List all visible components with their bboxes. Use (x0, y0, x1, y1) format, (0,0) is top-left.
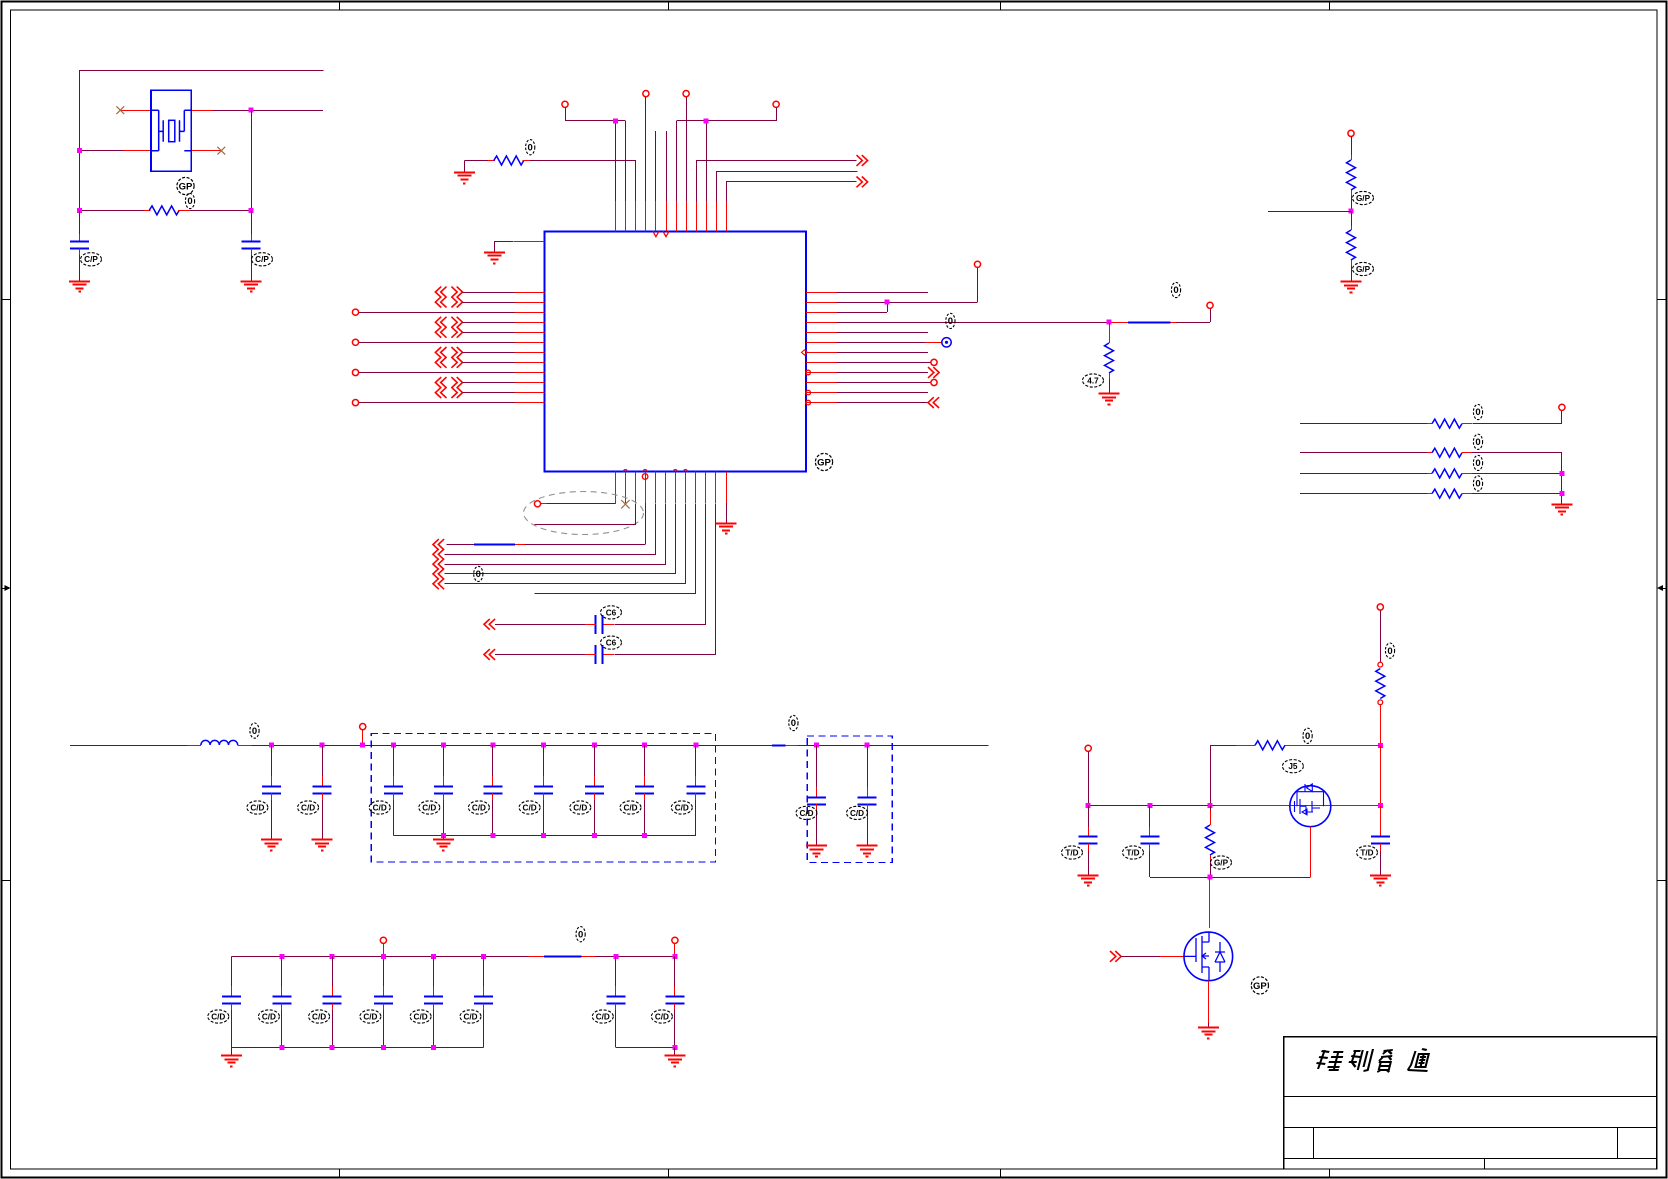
IC top pin clock marks (653, 231, 669, 236)
resistor R5 divider lower (1351, 211, 1353, 226)
wire left long row 3 (359, 372, 515, 374)
svg-text:G/P: G/P (1214, 858, 1229, 867)
wire divider tap out (1268, 211, 1351, 213)
wire power rail (1088, 805, 1215, 807)
crystal Y1 symbol (151, 110, 191, 151)
ground crystal C1 (69, 281, 90, 283)
wire left short rows group 2 (463, 322, 515, 324)
capacitor C17 bank3 (279, 954, 284, 959)
ground C15 (857, 845, 878, 847)
label value crystal R1 (185, 193, 194, 208)
svg-text:C/D: C/D (211, 1012, 225, 1021)
capacitor C6 rail (320, 743, 325, 748)
wire crystal right branch down (251, 110, 253, 210)
wire bottom p8 row (445, 504, 686, 584)
label L1 (250, 723, 259, 738)
node VT2 terminal (643, 91, 649, 97)
label R8 (1473, 455, 1482, 470)
label C7 (369, 801, 390, 814)
wire VIN to rail (1380, 745, 1382, 805)
border zone tick right lower (1657, 880, 1666, 882)
ground C24 (1078, 875, 1099, 877)
svg-text:0: 0 (1475, 407, 1480, 418)
svg-text:C/D: C/D (422, 803, 436, 812)
capacitor C16 bank3 (231, 956, 233, 986)
chevron row p6 (433, 559, 439, 570)
resistor R9 row4 (1300, 493, 1427, 495)
ground R3 (1099, 393, 1120, 395)
resistor R7 row2 (1300, 452, 1427, 454)
junction R10 bottom (1378, 743, 1383, 748)
svg-text:GP: GP (817, 457, 831, 468)
wire right row6 to testpoint (837, 342, 925, 344)
capacitor C10 box1 (541, 743, 546, 748)
label GP Q2 (1251, 977, 1268, 994)
svg-text:T/D: T/D (1126, 848, 1139, 857)
label R9 (1473, 476, 1482, 491)
label net row4 (1171, 282, 1180, 297)
svg-text:0: 0 (578, 929, 583, 940)
svg-text:C/D: C/D (675, 803, 689, 812)
company logo text (Chinese strokes) (1314, 1049, 1433, 1072)
label C10 (519, 801, 540, 814)
label R2 value (526, 140, 535, 155)
junction mid rail terminal (360, 743, 365, 748)
no-connect X crystal pin4 (217, 147, 225, 155)
IC left aux pin to ground (514, 241, 544, 243)
title block divider row3 (1284, 1158, 1657, 1160)
junction rail r12 (1208, 803, 1213, 808)
wire net VT4 (677, 108, 777, 121)
wire crystal pin3 out right (191, 110, 213, 112)
wire mid rail main (252, 745, 989, 747)
svg-text:C/D: C/D (301, 803, 315, 812)
chevron out row9 (928, 367, 934, 378)
svg-text:J5: J5 (1288, 762, 1298, 771)
svg-text:0: 0 (1475, 479, 1480, 490)
capacitor C3 series (595, 615, 597, 634)
svg-text:C/D: C/D (850, 809, 864, 818)
wire box1 bottom rail (394, 835, 696, 837)
junction crystal left (77, 148, 82, 153)
IC right pin stubs (red) (806, 293, 837, 403)
capacitor C11 box1 (592, 743, 597, 748)
capacitor C21 bank3 (481, 954, 486, 959)
wire pin 696 out right (697, 161, 857, 202)
junction net VT4 (704, 118, 709, 123)
title block outline (1284, 1037, 1657, 1169)
border zone tick left lower (2, 880, 11, 882)
chevron out B (857, 177, 863, 188)
ground IC bottom (716, 523, 737, 525)
label C16 (208, 1010, 229, 1023)
ferrite blue segment mid rail (772, 745, 785, 747)
node terminal bottom p1 (534, 501, 540, 507)
junction R1 left (77, 208, 82, 213)
ground C5 (261, 839, 282, 841)
resistor R2 pulldown top (464, 160, 495, 162)
wire left long row 2 (359, 342, 515, 344)
ground IC left aux (484, 252, 505, 254)
bus entry chevrons group 2 (435, 317, 441, 328)
node terminal divider top (1348, 130, 1354, 136)
label C26 (1357, 846, 1378, 859)
wire Q1 source down (1310, 827, 1312, 877)
svg-text:0: 0 (1475, 437, 1480, 448)
svg-text:C/P: C/P (255, 255, 269, 264)
capacitor C14 box2 (814, 743, 819, 748)
IC right pin bubbles (806, 370, 811, 375)
junction rail c2 (1147, 803, 1152, 808)
label R12 (1211, 856, 1232, 869)
title block cell line v2 (1617, 1127, 1619, 1158)
label C8 (419, 801, 440, 814)
ferrite blue segment row4 (1128, 322, 1171, 324)
inductor L1 (187, 745, 201, 747)
wire bottom p12 to ground (726, 503, 728, 523)
transistor Q1 (P-MOSFET) (1290, 786, 1331, 827)
junction right row2 (885, 300, 890, 305)
capacitor C7 box1 (391, 743, 396, 748)
node left terminal 4 (352, 400, 358, 406)
crystal Y1 body (151, 90, 191, 171)
junction row4 (1107, 320, 1112, 325)
node VT1 terminal (562, 101, 568, 107)
ground C14 (806, 845, 827, 847)
svg-text:C/D: C/D (596, 1012, 610, 1021)
svg-text:0: 0 (476, 569, 481, 580)
svg-text:C/D: C/D (463, 1012, 477, 1021)
svg-text:0: 0 (948, 316, 953, 327)
svg-text:C/D: C/D (262, 1012, 276, 1021)
svg-text:0: 0 (1305, 731, 1310, 742)
wire left short rows group 1 (463, 292, 515, 294)
wire right row7 stub (837, 352, 928, 354)
junctions bank3 bottom rail (279, 1045, 284, 1050)
ground bank3 right (674, 1048, 676, 1056)
resistor R6 row1 (1300, 423, 1427, 425)
junction 4R bus row3 (1559, 471, 1564, 476)
chevron row C3 (484, 619, 490, 630)
label C21 (460, 1010, 481, 1023)
label C6 (298, 801, 319, 814)
capacitor C2 crystal right (251, 210, 253, 234)
label bus row p7 (474, 566, 483, 581)
junction bank3 terminal (381, 954, 386, 959)
wire Q2 gate (1122, 956, 1161, 958)
border zone tick top 3 (1000, 2, 1002, 11)
chevron in row12 (928, 397, 934, 408)
title block cell line v1 (1313, 1127, 1315, 1158)
wire stub pin5 (655, 131, 657, 201)
chevron row p4 (433, 539, 439, 550)
label C3 (601, 606, 622, 619)
wire bottom p3 stub (535, 504, 636, 525)
node left terminal 3 (352, 369, 358, 375)
capacitor C8 box1 (441, 743, 446, 748)
wire 4R ground bus (1561, 453, 1563, 504)
IC bottom pin stubs (red) (616, 472, 727, 504)
wire Q2 drain (1209, 877, 1211, 928)
label C9 (468, 801, 489, 814)
label C24 (1062, 846, 1083, 859)
wire right row10 to terminal (837, 382, 931, 384)
capacitor C23 bank3 right (672, 954, 677, 959)
wire bottom p7 row (445, 504, 676, 574)
IC top pin stubs (red) (616, 201, 727, 231)
title block divider row1 (1284, 1096, 1657, 1098)
label R11 (1303, 728, 1312, 743)
wire pin 726 out right (727, 182, 857, 202)
junctions box1 bottom rail (441, 833, 446, 838)
wire right row5 stub (837, 332, 928, 334)
node terminal rail left (1085, 745, 1091, 751)
label net row4 inline (946, 313, 955, 328)
capacitor C4 series (595, 645, 597, 664)
ground R2 (464, 161, 466, 173)
border zone tick bottom 1 (339, 1169, 341, 1178)
ground box1 (443, 835, 445, 839)
capacitor C19 bank3 (381, 954, 386, 959)
wire bottom p5 row (445, 504, 656, 555)
label C17 (258, 1010, 279, 1023)
border zone tick top 2 (668, 2, 670, 11)
capacitor C24 rail left (1088, 806, 1090, 827)
wire net VT2 (645, 97, 647, 201)
node terminal row4 (1207, 302, 1213, 308)
label bank3 ferrite (576, 927, 585, 942)
chevron row p7 (433, 569, 439, 580)
label C25 (1123, 846, 1144, 859)
wire net VT1 (566, 108, 626, 121)
no-connect X crystal pin1 (116, 106, 124, 114)
capacitor C15 box2 (865, 743, 870, 748)
label R5 (1353, 262, 1374, 275)
capacitor C18 bank3 (330, 954, 335, 959)
junction bank3 right (672, 1045, 677, 1050)
label C5 (247, 801, 268, 814)
label C13 (671, 801, 692, 814)
svg-text:C/D: C/D (655, 1012, 669, 1021)
label R10 (1385, 643, 1394, 658)
svg-text:GP: GP (179, 181, 193, 192)
border zone tick bottom 4 (1329, 1169, 1331, 1178)
svg-text:C/D: C/D (523, 803, 537, 812)
label C14 (796, 806, 817, 819)
label C22 (592, 1010, 613, 1023)
chevron row p8 (433, 578, 439, 589)
node VT3 terminal (683, 91, 689, 97)
node terminal VIN (1377, 604, 1383, 610)
border zone tick left upper (2, 299, 11, 301)
IC right pin diamond row7 (802, 350, 808, 355)
wire left long row 4 (359, 402, 515, 404)
resistor R1 crystal feedback (80, 210, 144, 212)
ground C6 (312, 839, 333, 841)
wire mid rail left (70, 745, 187, 747)
wire right row11 stub (837, 392, 928, 394)
capacitor C5 rail (269, 743, 274, 748)
label C1 (81, 253, 102, 266)
capacitor C26 rail right (1380, 806, 1382, 827)
svg-text:C/D: C/D (312, 1012, 326, 1021)
resistor R4 divider upper (1351, 137, 1353, 155)
border zone tick top 1 (339, 2, 341, 11)
node terminal row8 (931, 359, 937, 365)
svg-text:C6: C6 (606, 639, 617, 648)
wire right row1 stub (837, 292, 928, 294)
svg-text:C/D: C/D (573, 803, 587, 812)
IC bottom pin circle p4 (642, 474, 648, 480)
svg-text:C/P: C/P (84, 255, 98, 264)
border zone tick bottom 2 (668, 1169, 670, 1178)
wire right row4 long net (837, 322, 1110, 324)
no-connect X bottom p2 (621, 500, 629, 508)
svg-text:C/D: C/D (799, 809, 813, 818)
wire bottom p4 row (to bus) (645, 503, 647, 545)
junction crystal right (249, 108, 254, 113)
wire VIN down (1380, 610, 1382, 662)
ground C26 (1370, 875, 1391, 877)
ground 4R network (1551, 504, 1572, 506)
label R7 (1473, 434, 1482, 449)
border zone tick right upper (1657, 299, 1666, 301)
capacitor C9 box1 (490, 743, 495, 748)
wire crystal pin2 row (80, 150, 123, 152)
ground divider (1341, 281, 1362, 283)
dashed group box 2 (807, 736, 892, 863)
wire bank3 right bottom rail (616, 1047, 675, 1049)
resistor R3 to ground (1109, 322, 1111, 343)
wire right row9 to chevron (837, 372, 928, 374)
svg-text:0: 0 (1475, 458, 1480, 469)
wire net VT3 (686, 97, 688, 201)
label C11 (570, 801, 591, 814)
title block cell line v3 (1484, 1158, 1486, 1169)
svg-text:0: 0 (528, 142, 533, 153)
wire pin 716 out right (717, 172, 858, 202)
node terminal row10 (931, 379, 937, 385)
wire Q2 source to ground (1208, 981, 1210, 1023)
svg-text:GP: GP (1253, 981, 1267, 992)
capacitor C25 rail mid (1149, 806, 1151, 827)
border centre arrow left (2, 588, 10, 590)
capacitor C12 box1 (642, 743, 647, 748)
wire right row12 to chevron (837, 402, 928, 404)
wire top-left net upper (80, 71, 324, 235)
label R3 (1083, 374, 1104, 387)
ground Q2 (1198, 1027, 1219, 1029)
wire bottom p1 (541, 503, 547, 505)
junction net VT1 (613, 118, 618, 123)
svg-text:C/D: C/D (363, 1012, 377, 1021)
label C2 (252, 253, 273, 266)
label C18 (309, 1010, 330, 1023)
label C15 (847, 806, 868, 819)
label GP IC U1 (815, 453, 832, 470)
title block divider row2 (1284, 1127, 1657, 1129)
svg-text:0: 0 (252, 726, 257, 737)
junction rail left (1086, 803, 1091, 808)
dashed highlight ellipse (524, 492, 644, 535)
junction R1 right (249, 208, 254, 213)
resistor R12 gate pulldown (1210, 806, 1212, 810)
label C23 (651, 1010, 672, 1023)
border centre arrow right (1659, 588, 1666, 590)
svg-text:G/P: G/P (1356, 265, 1371, 274)
capacitor C22 bank3 right (613, 954, 618, 959)
svg-text:T/D: T/D (1065, 848, 1078, 857)
IC U1 body (544, 231, 806, 471)
wire crystal pin4 to no-connect (191, 150, 221, 152)
bus entry chevrons group 1 (435, 287, 441, 298)
chevron row C4 (484, 649, 490, 660)
node left terminal 1 (352, 309, 358, 315)
bus entry chevrons group 4 (435, 377, 441, 388)
resistor R11 gate feed (1210, 745, 1236, 747)
node terminal mid rail (360, 724, 366, 730)
label R6 (1473, 404, 1482, 419)
ground crystal C2 (241, 281, 262, 283)
wire bank3 top rail (231, 956, 528, 958)
label mid rail ferrite (789, 715, 798, 730)
IC bottom pin bubbles (623, 470, 627, 472)
wire left long row 1 (359, 312, 515, 314)
node terminal bank3 left (380, 937, 386, 943)
wire bottom p9 stub row (535, 504, 696, 594)
label C19 (360, 1010, 381, 1023)
chevron row p5 (433, 549, 439, 560)
IC left pin stubs (red) (515, 293, 545, 403)
node terminal row2 (974, 261, 980, 267)
svg-text:0: 0 (1173, 285, 1178, 296)
testpoint symbol row6 (942, 338, 951, 347)
junction 4R bus row4 (1559, 491, 1564, 496)
border zone tick bottom 3 (1000, 1169, 1002, 1178)
chevron out A (857, 155, 863, 166)
label R4 (1353, 191, 1374, 204)
wire bottom gate rail (1150, 877, 1311, 879)
wire right row2-3 net to terminal (837, 302, 978, 304)
capacitor C20 bank3 (431, 954, 436, 959)
label C12 (620, 801, 641, 814)
wire R11 to rail (1210, 745, 1212, 805)
label Q1 ref (1282, 760, 1303, 773)
junction rail right (1378, 803, 1383, 808)
svg-text:C/D: C/D (472, 803, 486, 812)
wire crystal pin1 to no-connect (120, 110, 151, 112)
wire bottom p11 to series cap (615, 504, 716, 655)
node terminal R6 (1559, 404, 1565, 410)
svg-text:C/D: C/D (373, 803, 387, 812)
label GP crystal (177, 177, 194, 194)
ferrite blue segment row p4 (474, 544, 515, 546)
resistor R10 vertical with pads (1378, 662, 1383, 667)
wire left short rows group 3 (463, 352, 515, 354)
junction divider (1349, 209, 1354, 214)
svg-text:0: 0 (187, 196, 192, 207)
border zone tick top 4 (1329, 2, 1331, 11)
resistor R8 row3 (1300, 473, 1427, 475)
node VT4 terminal (773, 101, 779, 107)
svg-text:4.7: 4.7 (1087, 376, 1099, 385)
wire bank3 bottom rail (231, 1047, 483, 1049)
wire bottom p6 row (445, 504, 666, 565)
ferrite blue segment bank3 (544, 956, 582, 958)
chevron Q2 gate (1110, 951, 1116, 962)
svg-text:G/P: G/P (1356, 194, 1371, 203)
svg-text:C/D: C/D (250, 803, 264, 812)
